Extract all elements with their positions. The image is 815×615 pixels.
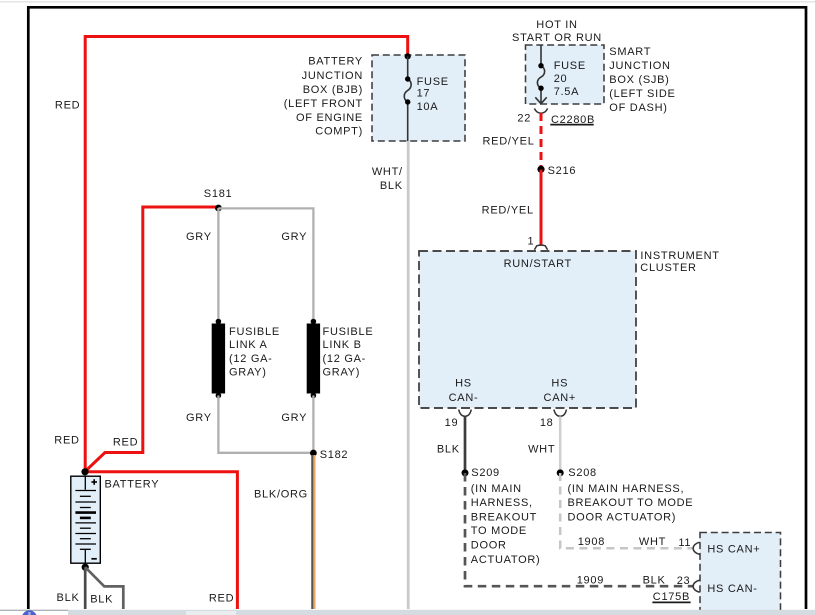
svg-text:OF ENGINE: OF ENGINE [296,112,363,124]
wire GRY from S181 to fusible links [217,208,219,321]
svg-text:BOX (BJB): BOX (BJB) [303,84,363,96]
battery junction box BJB [372,55,465,141]
fuse F17 10A [404,56,411,141]
connector pin 1 (dome) [534,245,547,250]
connector pin 23 (cup) [693,580,700,592]
svg-text:INSTRUMENT: INSTRUMENT [640,250,719,262]
wire: RED from battery + going right and down [85,472,237,609]
label BATTERY JUNCTION BOX (BJB) [284,56,363,138]
svg-text:17: 17 [417,87,431,99]
fuse F20 7.5A [535,45,546,104]
svg-text:LINK A: LINK A [229,339,268,351]
svg-text:BLK: BLK [57,592,80,604]
svg-text:COMPT): COMPT) [315,126,363,138]
svg-text:GRAY): GRAY) [229,366,267,378]
svg-text:1: 1 [527,235,534,247]
svg-text:CAN+: CAN+ [544,392,577,404]
svg-text:HS CAN+: HS CAN+ [707,544,760,556]
svg-text:BLK/ORG: BLK/ORG [254,489,308,501]
svg-text:BLK: BLK [380,180,403,192]
svg-text:RED: RED [113,436,138,448]
svg-text:WHT/: WHT/ [372,166,403,178]
svg-text:10A: 10A [417,101,439,113]
svg-text:FUSIBLE: FUSIBLE [323,326,374,338]
instrument cluster box [419,251,636,408]
node S209 [462,469,469,476]
svg-text:(LEFT SIDE: (LEFT SIDE [609,88,675,100]
smart junction box SJB [526,45,605,104]
svg-text:RED: RED [209,592,234,604]
svg-text:S181: S181 [204,188,233,200]
svg-text:GRY: GRY [186,231,212,243]
node S182 [310,450,317,457]
svg-text:ACTUATOR): ACTUATOR) [471,554,541,566]
label HOT IN START OR RUN [512,19,602,44]
svg-text:JUNCTION: JUNCTION [302,70,363,82]
wire GRY from links to S182 [218,396,313,453]
svg-text:RED: RED [55,99,80,111]
svg-text:GRY: GRY [281,231,307,243]
svg-text:GRY: GRY [281,412,307,424]
svg-text:HOT IN: HOT IN [536,19,577,31]
svg-text:BATTERY: BATTERY [105,478,160,490]
svg-text:FUSE: FUSE [554,60,586,72]
svg-text:GRAY): GRAY) [323,366,361,378]
svg-text:(IN MAIN HARNESS,: (IN MAIN HARNESS, [568,483,685,495]
svg-text:BREAKOUT TO MODE: BREAKOUT TO MODE [568,497,694,509]
node S181 [215,205,222,212]
top hairline [0,1,815,3]
svg-text:BLK: BLK [90,594,113,606]
svg-text:20: 20 [554,73,568,85]
wire RED/YEL dashed [540,113,543,170]
svg-text:HARNESS,: HARNESS, [471,497,533,509]
wire BLK (pin 19 to S209) [464,416,467,473]
svg-text:S208: S208 [568,467,597,479]
svg-text:HS: HS [455,378,472,390]
svg-text:FUSIBLE: FUSIBLE [229,326,280,338]
wire BLK (battery ground jog) [85,567,123,609]
svg-text:7.5A: 7.5A [554,86,580,98]
svg-text:S216: S216 [548,165,577,177]
svg-text:18: 18 [540,417,554,429]
svg-text:RED/YEL: RED/YEL [482,205,534,217]
mode door actuator box (HS CAN) [700,533,781,612]
wire RED/YEL solid [540,170,543,246]
svg-text:HS: HS [551,378,568,390]
svg-text:(12 GA-: (12 GA- [323,353,367,365]
svg-text:11: 11 [678,537,691,549]
svg-text:FUSE: FUSE [417,76,449,88]
svg-text:BOX (SJB): BOX (SJB) [609,74,669,86]
node S216 [537,166,544,173]
svg-text:BATTERY: BATTERY [308,56,363,68]
wire BLK (battery ground straight) [84,567,87,609]
wire WHT/BLK [407,141,410,609]
avatar icon [22,610,37,615]
svg-text:19: 19 [445,417,459,429]
svg-text:(IN MAIN: (IN MAIN [471,483,522,495]
node: battery positive junction [81,468,88,475]
svg-text:LINK B: LINK B [323,339,362,351]
svg-text:(12 GA-: (12 GA- [229,353,273,365]
svg-text:BREAKOUT: BREAKOUT [471,512,537,524]
svg-text:SMART: SMART [609,46,651,58]
battery + mark [91,479,97,485]
svg-text:OF DASH): OF DASH) [609,102,667,114]
svg-text:(LEFT FRONT: (LEFT FRONT [284,98,363,110]
node: battery negative junction [82,564,89,571]
svg-text:BLK: BLK [437,443,460,455]
svg-text:22: 22 [517,112,531,124]
wire WHT (pin 18 to S208) [559,416,562,473]
svg-text:1908: 1908 [578,536,605,548]
wire BLK/ORG [311,455,313,609]
battery - mark [91,558,96,560]
svg-text:DOOR: DOOR [471,540,507,552]
node: junction at BJB top [405,53,411,59]
connector pin 18 (cup) [554,410,567,417]
svg-text:WHT: WHT [639,536,666,548]
svg-text:BLK: BLK [643,574,666,586]
svg-text:HS CAN-: HS CAN- [707,583,757,595]
bottom bar [0,610,815,615]
node S208 [557,469,564,476]
svg-text:RUN/START: RUN/START [504,258,572,270]
svg-text:S209: S209 [471,467,500,479]
svg-text:JUNCTION: JUNCTION [609,60,670,72]
connector pin 19 (cup) [459,410,472,417]
connector pin 22 C2280B (cup) [534,108,547,113]
svg-text:START OR RUN: START OR RUN [512,32,602,44]
svg-text:C175B: C175B [653,591,690,603]
battery [71,476,101,563]
svg-text:S182: S182 [320,449,349,461]
svg-text:CLUSTER: CLUSTER [640,262,696,274]
svg-text:TO MODE: TO MODE [471,525,527,537]
wire: RED battery feed (battery + to BJB) [85,37,408,473]
fusible link B [311,319,317,325]
wire BLK dashed (S209 to pin 23) [465,473,693,586]
wire WHT dashed (S208 to pin 11) [560,473,693,548]
fusible link A [216,319,222,325]
svg-text:RED: RED [54,435,79,447]
connector pin 11 (cup) [693,542,700,554]
svg-text:DOOR ACTUATOR): DOOR ACTUATOR) [568,512,677,524]
svg-text:1909: 1909 [577,574,604,586]
label HS CAN- (in box) [449,378,576,404]
svg-text:CAN-: CAN- [449,392,479,404]
svg-text:RED/YEL: RED/YEL [482,135,534,147]
svg-text:23: 23 [677,575,691,587]
svg-text:WHT: WHT [528,443,555,455]
wire: RED from S181 to battery [85,207,218,472]
svg-text:GRY: GRY [186,412,212,424]
